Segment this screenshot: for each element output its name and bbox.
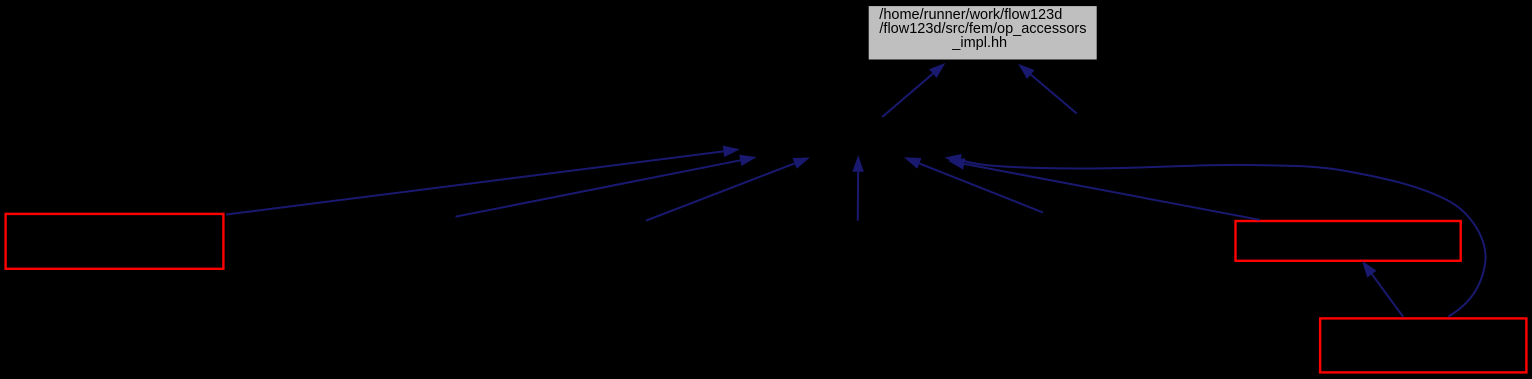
edge from mid node B to top box xyxy=(1031,75,1077,114)
node: /home/runner/work/flow123d/flow123d/src/fem/op_accessors_impl.hh (filled box) xyxy=(869,6,1097,59)
edge curve from box R3 to mid node B xyxy=(961,160,1486,317)
edge from box R2 to mid node B xyxy=(964,164,1259,220)
edge from mid node A to top box xyxy=(882,74,933,117)
edge from hidden node 5 to mid node A xyxy=(919,163,1043,212)
edge from node at left box to mid node A xyxy=(226,151,723,214)
node R1 (red box, lower left) xyxy=(6,214,224,269)
label of top node line 1 xyxy=(879,8,1062,23)
edge from hidden node 4 to mid node A xyxy=(857,172,859,221)
edge from box R3 to box R2 xyxy=(1372,274,1403,317)
label of top node line 2 xyxy=(879,22,1086,37)
edge from hidden node 3 to mid node A xyxy=(646,163,795,220)
node R3 (red box, bottom right) xyxy=(1320,318,1526,372)
edge from hidden node 2 to mid node A xyxy=(456,160,741,216)
node R2 (red box, middle right) xyxy=(1236,221,1461,261)
label of top node line 3 xyxy=(952,36,1007,51)
